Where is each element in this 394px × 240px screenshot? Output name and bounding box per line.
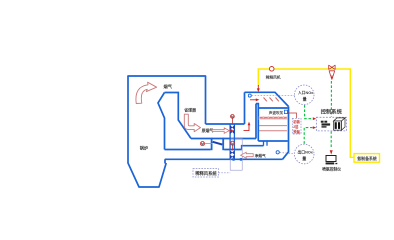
soot blower box	[284, 110, 287, 113]
green signal line valve to control box	[330, 81, 332, 117]
outlet NOx monitor circle	[294, 144, 314, 164]
red arrow below valve	[330, 77, 333, 81]
reactor right wall and chamfer	[283, 107, 289, 160]
svg-text:出口NOx: 出口NOx	[298, 150, 314, 155]
dilution air nozzles on duct	[232, 158, 234, 161]
svg-text:稀释风系统: 稀释风系统	[195, 170, 217, 177]
bypass damper blade	[213, 142, 223, 145]
sonic soot blower diagonal dashes	[264, 98, 279, 102]
wire bypass duct floor wall right	[224, 149, 242, 151]
green signal line inlet NOx to control box	[305, 105, 313, 119]
red flow arrow up riser	[244, 125, 250, 131]
svg-text:M: M	[201, 142, 204, 146]
wire outlet duct top wall	[242, 146, 264, 150]
wire raw flue gas duct top wall	[206, 123, 245, 125]
svg-text:稀释风机: 稀释风机	[266, 74, 281, 79]
svg-text:M: M	[231, 115, 234, 119]
svg-text:M: M	[231, 142, 234, 146]
wire raw flue gas duct bottom wall	[191, 138, 256, 140]
valve V1 damper in raw gas duct	[230, 125, 235, 134]
catalyst label box	[292, 118, 301, 134]
red flow arrow right in inlet duct	[250, 99, 257, 101]
svg-text:原烟气: 原烟气	[201, 128, 214, 133]
svg-text:量: 量	[302, 155, 306, 161]
svg-text:净烟气: 净烟气	[255, 153, 266, 158]
wire riser left wall	[244, 92, 246, 124]
red tip into valve column	[230, 129, 233, 132]
red arrow ammonia into duct	[257, 85, 259, 89]
wire bypass duct floor wall left	[165, 149, 211, 151]
svg-text:声波吹灰: 声波吹灰	[268, 110, 284, 115]
svg-text:氨制备系统: 氨制备系统	[357, 156, 377, 161]
catalyst layer lines	[259, 126, 287, 131]
damper actuator circle M	[205, 143, 213, 145]
yellow ammonia supply line	[258, 69, 354, 157]
boiler rear-pass nose right wall	[165, 93, 192, 139]
inlet NOx monitor circle	[294, 85, 314, 105]
curved flue-gas arrow	[136, 82, 157, 103]
svg-text:省煤器: 省煤器	[183, 108, 197, 113]
valve V2 damper in clean gas duct	[230, 151, 235, 159]
wire reactor inlet duct top	[245, 92, 289, 106]
red link line to catalyst label box	[288, 113, 297, 118]
wire riser right wall	[255, 104, 257, 139]
outlet NOx sampling point	[276, 151, 279, 154]
NH3 injection controller monitor icon	[326, 156, 336, 162]
reactor outlet neck stubs	[264, 141, 268, 146]
dilution fan circle on ammonia line	[269, 67, 274, 72]
wire clean gas duct bottom wall	[165, 159, 283, 163]
ammonia preparation system box	[354, 154, 380, 163]
svg-text:锅炉: 锅炉	[139, 144, 148, 151]
svg-text:2层: 2层	[293, 124, 299, 129]
boiler outline	[128, 76, 206, 187]
boiler rear-pass nose left wall	[158, 93, 165, 150]
raw flue gas hollow arrow	[212, 128, 229, 133]
svg-text:喷氨控制仪: 喷氨控制仪	[322, 166, 341, 171]
valve V1 actuator circle	[231, 118, 233, 124]
economizer elbow arrow	[184, 114, 200, 132]
svg-text:入口NOx: 入口NOx	[297, 90, 314, 95]
green signal line outlet NOx to control box	[304, 128, 312, 144]
reactor body top edge	[258, 107, 287, 109]
ammonia injection grid band	[259, 116, 288, 120]
svg-text:初装: 初装	[293, 119, 300, 124]
valve V2 actuator circle	[232, 145, 234, 150]
wire bypass vertical duct walls	[230, 124, 234, 150]
svg-text:控制系统: 控制系统	[321, 108, 343, 116]
clean gas hollow arrow (pointing left)	[241, 152, 254, 158]
svg-text:烟气: 烟气	[164, 83, 173, 90]
green signal line control box to NH3 controller	[330, 131, 332, 147]
mixing chamber thin outline	[230, 139, 242, 171]
inlet NOx sampling point	[248, 94, 251, 97]
dilution air dashed connector	[219, 172, 231, 174]
reactor body bottom edge	[258, 140, 287, 142]
PLC icon 3D cabinet	[334, 118, 346, 121]
svg-text:量: 量	[303, 96, 307, 102]
valve funnel body	[329, 71, 335, 76]
control system dashed box	[316, 117, 346, 131]
svg-text:预留: 预留	[293, 129, 300, 134]
bypass damper flange bars	[211, 138, 213, 150]
PLC icon left part	[321, 121, 324, 123]
dilution air system dashed box	[193, 169, 219, 177]
ammonia control valve on yellow line	[329, 65, 335, 69]
wire reactor inlet duct bottom	[256, 104, 258, 141]
